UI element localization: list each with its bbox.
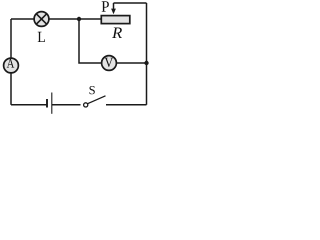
wire: slider top wire xyxy=(114,2,147,4)
wire: bottom wire right segment (switch to right corner) xyxy=(106,104,147,106)
wire: voltmeter branch from junction down and right xyxy=(79,19,102,63)
battery cell: short thick negative plate xyxy=(46,99,48,108)
node: junction dot on right wire xyxy=(144,61,148,65)
label L xyxy=(38,32,45,42)
label S xyxy=(90,86,95,94)
rheostat R (resistor box) xyxy=(101,16,130,24)
rheostat slider arrow P xyxy=(111,3,116,14)
wire: bottom wire left segment (to battery) xyxy=(11,104,47,106)
node: junction dot on top wire xyxy=(77,17,81,21)
wire: bottom wire middle segment (battery to switch) xyxy=(52,104,81,106)
wire: left vertical wire xyxy=(10,19,12,105)
voltmeter V xyxy=(102,56,117,71)
switch S pivot circle xyxy=(84,103,88,107)
wire: voltmeter right wire xyxy=(116,62,146,64)
switch S lever xyxy=(88,96,106,104)
lamp L xyxy=(34,12,49,27)
ammeter A xyxy=(4,58,19,73)
label P xyxy=(102,1,109,12)
wire: top wire from left corner to rheostat xyxy=(11,18,101,20)
label R xyxy=(112,28,122,39)
battery cell: long thin positive plate xyxy=(51,93,53,114)
wire: right vertical wire xyxy=(146,3,148,105)
